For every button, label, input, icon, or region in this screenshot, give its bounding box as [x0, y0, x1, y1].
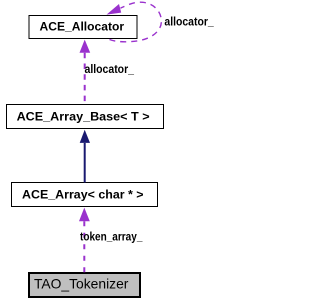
edge: allocator_ from ACE_Array_Base to ACE_Allocator (dashed darkorchid)	[84, 53, 86, 104]
edge: inheritance ACE_Array< char * > -> ACE_Array_Base< T > (solid midnightblue)	[84, 143, 86, 183]
arrowhead onto bottom edge of ACE_Allocator	[80, 40, 91, 53]
svg-text:TAO_Tokenizer: TAO_Tokenizer	[34, 276, 129, 292]
class box TAO_Tokenizer (current node, grey)	[29, 273, 140, 297]
svg-text:allocator_: allocator_	[164, 15, 214, 29]
svg-text:ACE_Array< char * >: ACE_Array< char * >	[22, 188, 144, 202]
svg-text:ACE_Array_Base< T >: ACE_Array_Base< T >	[17, 110, 150, 124]
arrowhead of self-loop onto top edge of ACE_Allocator	[107, 4, 122, 15]
edge: token_array_ from TAO_Tokenizer to ACE_Array< char * > (dashed darkorchid)	[83, 221, 85, 272]
class box ACE_Array< char * >	[12, 183, 158, 207]
label allocator_ (self-loop)	[164, 15, 214, 29]
class box ACE_Allocator	[29, 16, 137, 39]
svg-text:ACE_Allocator: ACE_Allocator	[40, 20, 125, 34]
svg-text:allocator_: allocator_	[85, 62, 135, 76]
class box ACE_Array_Base< T >	[7, 105, 164, 129]
label allocator_ (vertical edge)	[85, 62, 135, 76]
arrowhead onto bottom edge of ACE_Array< char * >	[79, 208, 90, 222]
arrowhead onto bottom edge of ACE_Array_Base	[80, 130, 90, 143]
label token_array_	[80, 229, 143, 243]
svg-text:token_array_: token_array_	[80, 229, 143, 243]
edge: allocator_ self-loop on ACE_Allocator (dashed darkorchid)	[110, 2, 162, 42]
